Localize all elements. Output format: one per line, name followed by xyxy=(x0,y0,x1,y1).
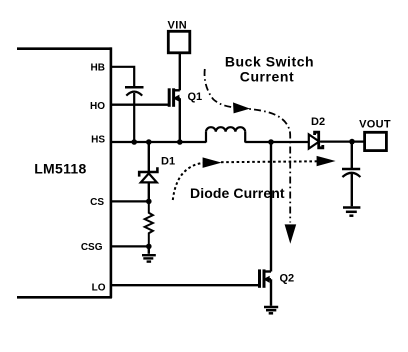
arrowhead buck mid xyxy=(233,102,250,113)
wire HO pin to Q1 gate xyxy=(111,103,168,105)
VIN terminal box xyxy=(168,31,190,53)
wire switch node to Q2 drain xyxy=(270,142,272,272)
node HS-D1 junction xyxy=(146,139,152,145)
ground (CSG) xyxy=(142,255,156,261)
svg-text:VOUT: VOUT xyxy=(359,118,391,130)
svg-text:D1: D1 xyxy=(161,156,175,168)
wire D2 cathode to VOUT node xyxy=(320,141,364,143)
svg-text:Q2: Q2 xyxy=(280,273,295,285)
svg-text:VIN: VIN xyxy=(168,20,188,32)
wire HS rail xyxy=(111,141,206,143)
transistor Q2 xyxy=(260,269,272,287)
capacitor C-boot (HB to HS) xyxy=(125,87,144,95)
wire CS pin xyxy=(111,200,149,202)
svg-text:Diode Current: Diode Current xyxy=(190,185,285,201)
wire HB pin to bootstrap capacitor xyxy=(111,67,134,86)
IC U1 LM5118 body (open left side) xyxy=(17,47,112,298)
node HS-Cboot junction xyxy=(131,139,137,145)
wire LO pin to Q2 gate xyxy=(111,284,258,286)
annotation: diode current dotted path xyxy=(173,163,206,200)
annotation: buck current dash-dot path xyxy=(205,69,291,223)
arrowhead diode right xyxy=(317,156,336,166)
wire CSG to ground xyxy=(148,246,150,253)
svg-text:HB: HB xyxy=(91,63,105,74)
node CS junction xyxy=(146,199,152,205)
ground (Q2) xyxy=(264,307,278,313)
resistor R-sense xyxy=(145,201,153,246)
svg-text:HO: HO xyxy=(90,101,105,112)
svg-text:CSG: CSG xyxy=(81,242,103,253)
diode D2 (Schottky) xyxy=(309,134,319,148)
svg-text:D2: D2 xyxy=(311,116,325,128)
wire capacitor bottom to HS rail (crosses HO) xyxy=(133,93,135,142)
capacitor C-out xyxy=(342,169,360,177)
inductor L1 xyxy=(206,127,245,142)
wire Q1 source to HS rail xyxy=(179,98,181,142)
wire D1 anode to CS node xyxy=(148,182,150,201)
svg-text:HS: HS xyxy=(91,135,105,146)
wire HS to D1 cathode xyxy=(148,142,150,171)
svg-text:Current: Current xyxy=(240,68,294,84)
svg-text:LO: LO xyxy=(92,282,106,293)
wire inductor to D2/Q2 node xyxy=(245,141,309,143)
svg-text:Buck Switch: Buck Switch xyxy=(225,54,314,70)
wire VOUT node to output capacitor xyxy=(351,142,353,168)
wire CSG pin xyxy=(111,245,149,247)
node VOUT junction xyxy=(349,139,355,145)
arrowhead buck down xyxy=(285,224,297,243)
node HS-Q1 source junction xyxy=(177,139,183,145)
wire Q2 source to ground xyxy=(270,279,272,306)
arrowhead diode left xyxy=(203,157,222,168)
transistor Q1 xyxy=(169,88,180,107)
wire output capacitor to ground xyxy=(351,174,353,206)
VOUT terminal box xyxy=(365,132,387,150)
diode D1 (Schottky) xyxy=(139,167,157,176)
svg-text:LM5118: LM5118 xyxy=(34,161,86,177)
node switch-Q2 junction xyxy=(268,139,274,145)
wire VIN to Q1 drain xyxy=(179,53,181,90)
svg-text:CS: CS xyxy=(90,197,104,208)
ground (output) xyxy=(343,208,360,216)
svg-text:Q1: Q1 xyxy=(188,91,203,103)
node CSG junction xyxy=(146,244,152,250)
